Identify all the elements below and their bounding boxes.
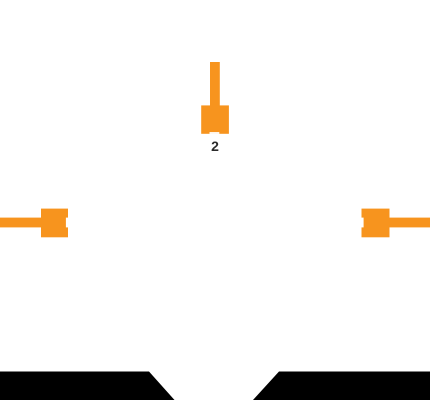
pin 1 pad notch [66, 218, 68, 228]
pin 1 wire (left horizontal) [0, 218, 41, 228]
diode body D1 (bottom-left black shape) [0, 372, 175, 400]
pin 1 pad [41, 209, 68, 238]
svg-text:2: 2 [211, 138, 219, 154]
pin 2 wire (right horizontal) [390, 218, 430, 228]
diode body D2 (bottom-right black shape) [253, 372, 430, 400]
pin 3 pad notch [210, 132, 220, 134]
pin 3 pad [201, 105, 229, 133]
pin 2 pad notch [362, 218, 364, 228]
pin 2 pad [362, 209, 390, 238]
pin 3 wire (top vertical) [210, 62, 220, 106]
